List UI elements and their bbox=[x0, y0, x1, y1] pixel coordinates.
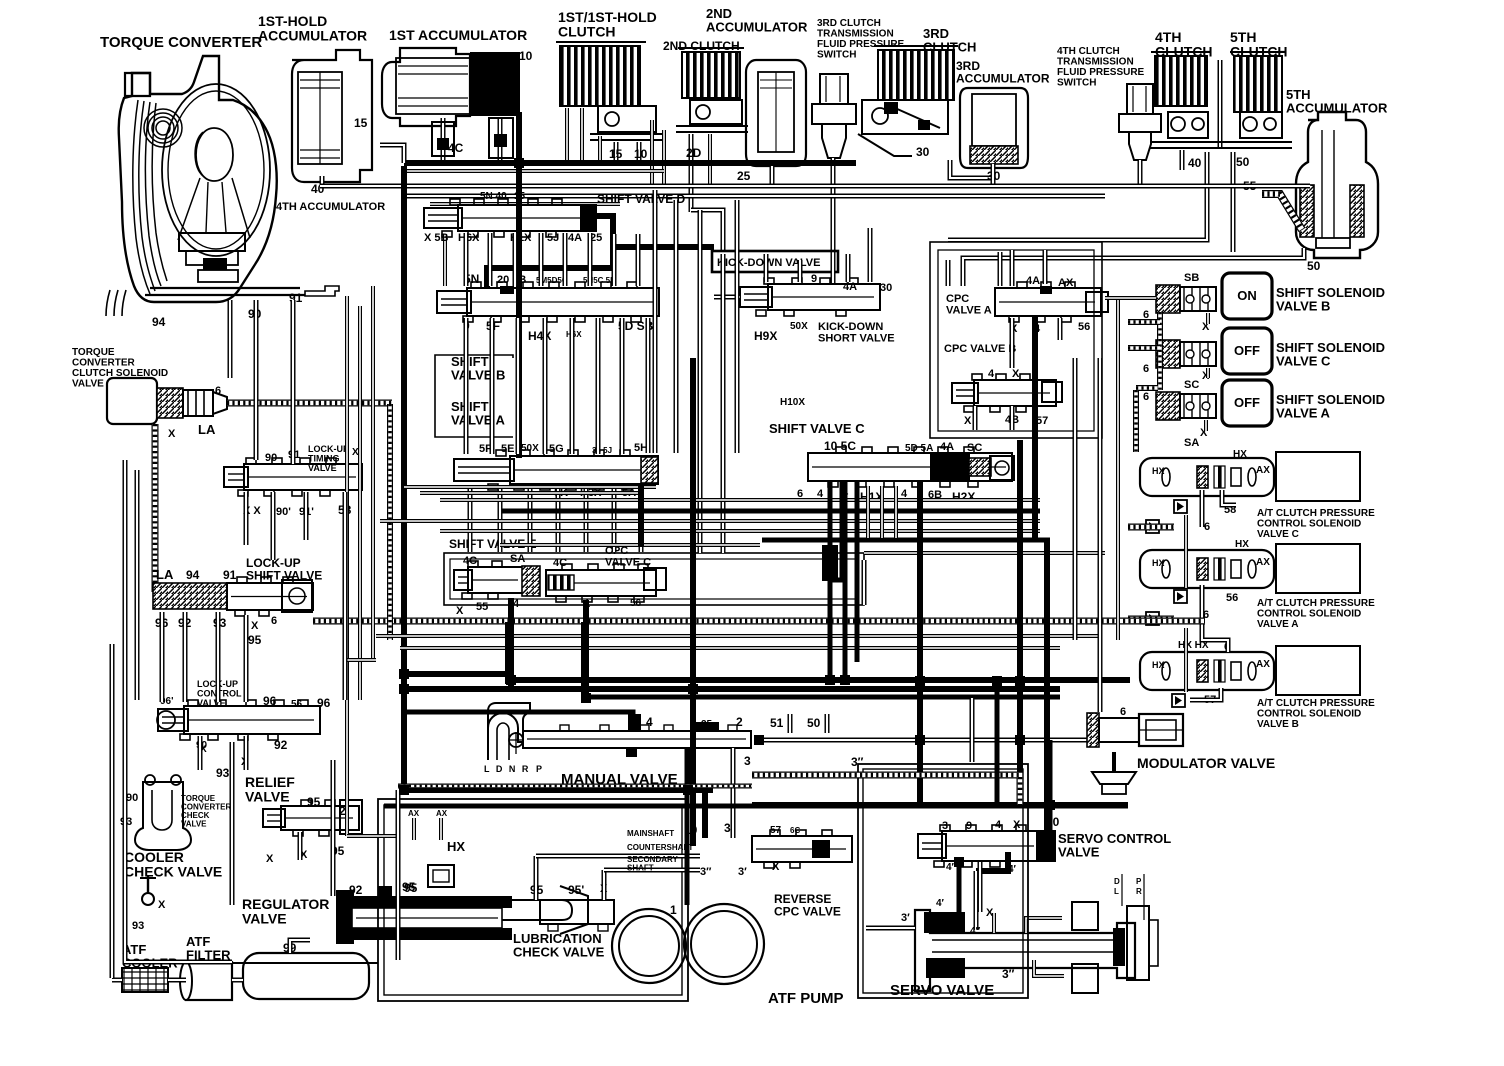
svg-text:OFF: OFF bbox=[1234, 395, 1260, 410]
kick-down left stem bbox=[714, 295, 740, 300]
svg-text:R: R bbox=[1136, 887, 1142, 896]
svg-text:CPC VALVE: CPC VALVE bbox=[774, 905, 841, 919]
svg-text:COOLER: COOLER bbox=[124, 849, 184, 865]
svg-text:TRANSMISSION: TRANSMISSION bbox=[817, 29, 894, 40]
svg-text:6: 6 bbox=[1143, 363, 1149, 375]
svg-text:2: 2 bbox=[339, 804, 346, 818]
svg-text:HX: HX bbox=[1152, 466, 1165, 476]
servo valve bbox=[915, 910, 1135, 991]
svg-text:L: L bbox=[1114, 887, 1119, 896]
wire 832 switch drop bbox=[831, 255, 836, 283]
A/T solenoid B connector box bbox=[1276, 646, 1360, 695]
wire 3rd clutch to bus bbox=[950, 160, 993, 183]
wire right lower verticals bbox=[995, 682, 1000, 806]
check valve A1 bbox=[1174, 590, 1187, 603]
svg-text:A/T CLUTCH PRESSURE: A/T CLUTCH PRESSURE bbox=[1257, 698, 1375, 709]
4th clutch pressure switch bbox=[1127, 84, 1153, 114]
svg-text:ACCUMULATOR: ACCUMULATOR bbox=[706, 20, 808, 35]
svg-text:AX: AX bbox=[1256, 557, 1270, 568]
svg-text:3″: 3″ bbox=[1002, 967, 1015, 981]
wire 3rd accumulator stem bbox=[991, 164, 996, 184]
svg-text:A/T CLUTCH PRESSURE: A/T CLUTCH PRESSURE bbox=[1257, 598, 1375, 609]
servo bottom block bbox=[1072, 964, 1098, 993]
wire at solenoid A ports bbox=[1202, 585, 1228, 652]
svg-text:X 5B: X 5B bbox=[424, 232, 449, 244]
svg-text:TORQUE CONVERTER: TORQUE CONVERTER bbox=[100, 34, 262, 51]
svg-text:6C: 6C bbox=[790, 826, 800, 835]
shift solenoid C box bbox=[1222, 328, 1272, 374]
wire servo 3' stub bbox=[866, 926, 915, 931]
wire 5th accumulator down bbox=[963, 248, 1304, 286]
servo control valve bbox=[942, 831, 1040, 861]
A/T solenoid C connector box bbox=[1276, 452, 1360, 501]
wire 3rd switch down bbox=[831, 158, 836, 282]
svg-text:95: 95 bbox=[402, 880, 416, 894]
4th/5th clutch pistons bbox=[1168, 112, 1208, 138]
lock-up shift valve body bbox=[227, 583, 313, 610]
wire at solenoid B ports bbox=[1190, 688, 1221, 700]
wire 50 bus bbox=[1231, 152, 1236, 252]
svg-text:20 5B: 20 5B bbox=[497, 274, 526, 286]
svg-text:3′: 3′ bbox=[738, 866, 747, 878]
svg-text:COUNTERSHAFT: COUNTERSHAFT bbox=[627, 843, 693, 852]
svg-text:X: X bbox=[1012, 368, 1020, 380]
svg-text:4: 4 bbox=[646, 715, 653, 729]
wire 4C riser bbox=[380, 145, 404, 163]
svg-text:SC: SC bbox=[1184, 379, 1199, 391]
svg-text:VALVE C: VALVE C bbox=[1276, 354, 1331, 369]
wire srv box left bbox=[862, 560, 867, 605]
svg-text:X: X bbox=[964, 415, 972, 427]
wire modulator stem bbox=[1112, 752, 1116, 772]
A/T solenoid A connector box bbox=[1276, 544, 1360, 593]
check valve B1 bbox=[1172, 694, 1185, 707]
svg-text:SHORT VALVE: SHORT VALVE bbox=[818, 333, 895, 345]
wire solenoid X down hatched bbox=[152, 424, 159, 592]
svg-text:6: 6 bbox=[1204, 521, 1210, 533]
wire thick mid horizontal bbox=[762, 538, 1050, 543]
svg-text:90': 90' bbox=[276, 506, 291, 518]
wire box rail 553 bbox=[864, 551, 1105, 555]
svg-text:95: 95 bbox=[307, 795, 321, 809]
wire servo control drop bbox=[957, 862, 962, 916]
svg-text:ATF PUMP: ATF PUMP bbox=[768, 990, 844, 1007]
wire regulator to relief bbox=[331, 760, 336, 896]
svg-text:3: 3 bbox=[942, 820, 948, 832]
wire tc converter down bbox=[228, 300, 233, 378]
wire 40 bus bbox=[948, 152, 1207, 240]
svg-text:VALVE: VALVE bbox=[72, 379, 104, 390]
svg-text:5TH: 5TH bbox=[1230, 29, 1256, 45]
svg-text:93: 93 bbox=[132, 920, 144, 932]
svg-text:56: 56 bbox=[1078, 321, 1090, 333]
wire 2D drop bbox=[691, 210, 723, 252]
shift valve E bbox=[468, 567, 524, 593]
hatched pipe into check C bbox=[1128, 524, 1174, 531]
svg-text:15: 15 bbox=[514, 191, 526, 202]
2nd accumulator bbox=[746, 60, 806, 166]
wire 1st accumulator ports bbox=[441, 118, 446, 160]
svg-text:X: X bbox=[772, 861, 780, 873]
svg-text:X: X bbox=[456, 605, 464, 617]
svg-text:CONTROL SOLENOID: CONTROL SOLENOID bbox=[1257, 609, 1361, 620]
svg-text:CHECK VALVE: CHECK VALVE bbox=[513, 945, 605, 960]
hatched pipe 55 bbox=[1262, 194, 1302, 230]
wire lube check stubs bbox=[534, 856, 539, 900]
wire 1st acc thick drop bbox=[516, 112, 522, 458]
wire 1st-hold accumulator to bus bbox=[320, 176, 325, 186]
svg-text:10 5C: 10 5C bbox=[824, 439, 856, 453]
svg-text:P: P bbox=[1136, 877, 1142, 886]
wire timing valve risers bbox=[244, 492, 249, 545]
wire cpc A internal drops bbox=[1010, 318, 1015, 368]
svg-text:LA: LA bbox=[156, 567, 174, 582]
atf cooler bbox=[122, 968, 168, 992]
svg-text:4TH CLUTCH: 4TH CLUTCH bbox=[1057, 46, 1120, 57]
wire shift C blob drop bbox=[822, 545, 838, 581]
svg-text:25: 25 bbox=[701, 719, 713, 730]
svg-text:VALVE: VALVE bbox=[181, 820, 207, 829]
wire interchange extra bbox=[404, 485, 656, 489]
svg-text:1ST-HOLD: 1ST-HOLD bbox=[258, 13, 327, 29]
wire right bundle down from clutches bbox=[612, 234, 617, 286]
shift solenoid A box bbox=[1222, 380, 1272, 426]
wire long horizontal 635 bbox=[376, 634, 1100, 638]
svg-text:LOCK-UP: LOCK-UP bbox=[308, 444, 349, 454]
hatched pipe LA bbox=[227, 400, 392, 407]
svg-text:KICK-DOWN VALVE: KICK-DOWN VALVE bbox=[717, 257, 820, 269]
svg-text:3: 3 bbox=[744, 754, 751, 768]
svg-text:VALVE B: VALVE B bbox=[1257, 719, 1299, 730]
wire main top bus bbox=[320, 184, 1310, 189]
wire manual valve right bbox=[764, 738, 1092, 743]
svg-text:30: 30 bbox=[916, 145, 930, 159]
reverse cpc valve bbox=[752, 836, 852, 862]
svg-text:40: 40 bbox=[1188, 156, 1202, 170]
modulator valve bbox=[1087, 713, 1099, 747]
svg-text:X: X bbox=[352, 447, 359, 458]
wire valve D thick connector bbox=[487, 216, 613, 288]
A/T clutch pressure control solenoid valve B body bbox=[1140, 652, 1274, 690]
svg-text:HX: HX bbox=[1152, 558, 1165, 568]
shift valve C hatch bbox=[969, 458, 991, 476]
svg-text:SWITCH: SWITCH bbox=[817, 50, 856, 61]
svg-text:3′: 3′ bbox=[901, 912, 910, 924]
wire thick accumulator feed bbox=[404, 160, 856, 166]
svg-text:X: X bbox=[986, 907, 994, 919]
shift valve C black blobs bbox=[930, 452, 970, 482]
svg-text:VALVE B: VALVE B bbox=[451, 368, 505, 383]
manual valve body bbox=[523, 731, 751, 748]
wire shift C extra drops bbox=[866, 486, 870, 538]
svg-text:CHECK VALVE: CHECK VALVE bbox=[124, 864, 222, 880]
wire kick-down risers bbox=[764, 254, 769, 282]
wire cpc box internals bbox=[946, 260, 951, 286]
cpc valve A bbox=[995, 288, 1101, 316]
relief valve bbox=[281, 806, 359, 830]
wire relief drop bbox=[298, 832, 303, 860]
wire 4th clutch down bbox=[1180, 150, 1185, 170]
svg-text:4TH ACCUMULATOR: 4TH ACCUMULATOR bbox=[276, 201, 385, 213]
svg-text:4A: 4A bbox=[1026, 275, 1040, 287]
svg-text:1ST ACCUMULATOR: 1ST ACCUMULATOR bbox=[389, 27, 527, 43]
svg-text:SHIFT VALVE D: SHIFT VALVE D bbox=[597, 192, 686, 206]
wire manual 3 drop bbox=[731, 748, 736, 838]
lock-up timing valve bbox=[244, 464, 362, 490]
wire servo drops bbox=[978, 862, 983, 912]
svg-text:VALVE: VALVE bbox=[242, 911, 287, 927]
1st clutch piston bbox=[598, 106, 656, 132]
svg-text:ON: ON bbox=[1237, 288, 1257, 303]
svg-text:6: 6 bbox=[215, 385, 221, 397]
svg-text:90: 90 bbox=[126, 792, 138, 804]
wire middle verticals cluster C bbox=[468, 486, 473, 552]
cpc valve C bbox=[546, 570, 656, 596]
wire h 262 bbox=[961, 262, 966, 286]
svg-text:35 5J: 35 5J bbox=[592, 446, 612, 455]
1st accumulator black piston bbox=[470, 52, 520, 116]
svg-text:CONVERTER: CONVERTER bbox=[72, 358, 136, 369]
2nd clutch piston bbox=[690, 100, 742, 124]
svg-text:96: 96 bbox=[317, 696, 331, 710]
svg-text:4A: 4A bbox=[940, 441, 954, 453]
svg-text:4″: 4″ bbox=[970, 926, 981, 937]
svg-text:AX: AX bbox=[436, 809, 448, 818]
svg-text:94: 94 bbox=[152, 315, 166, 329]
svg-text:6: 6 bbox=[1120, 706, 1126, 718]
svg-text:9: 9 bbox=[811, 273, 817, 285]
svg-text:X: X bbox=[168, 428, 176, 440]
wire 95 rail lube bbox=[396, 790, 401, 960]
modulator funnel bbox=[1092, 772, 1136, 784]
svg-text:A/T CLUTCH PRESSURE: A/T CLUTCH PRESSURE bbox=[1257, 508, 1375, 519]
svg-text:5N 40: 5N 40 bbox=[480, 191, 507, 202]
svg-text:4: 4 bbox=[513, 598, 520, 610]
hatched pipe into check A bbox=[1128, 616, 1174, 623]
4th clutch pack bbox=[1155, 56, 1207, 106]
wire 51 50 stubs bbox=[788, 714, 793, 733]
svg-text:5G: 5G bbox=[549, 443, 564, 455]
wire AX stubs bbox=[412, 818, 416, 840]
wire 91 drop bbox=[291, 300, 296, 464]
svg-text:VALVE: VALVE bbox=[245, 789, 290, 805]
wire check valve links bbox=[1184, 515, 1188, 588]
svg-text:5J: 5J bbox=[547, 232, 559, 244]
svg-text:HX: HX bbox=[1235, 539, 1249, 550]
regulator valve bbox=[336, 890, 354, 944]
box shift valve B/A bbox=[435, 355, 513, 437]
svg-text:15: 15 bbox=[609, 147, 623, 161]
wire cpc box to coils bbox=[1105, 296, 1156, 300]
wire cpc A risers bbox=[1010, 250, 1015, 286]
servo valve black blobs bbox=[924, 912, 965, 933]
box cpc valves bbox=[930, 242, 1102, 438]
svg-text:4A: 4A bbox=[843, 281, 857, 293]
svg-text:SWITCH: SWITCH bbox=[1057, 78, 1096, 89]
shift valve D bbox=[458, 205, 596, 231]
svg-text:FLUID PRESSURE: FLUID PRESSURE bbox=[1057, 67, 1145, 78]
wire valve D port drop bbox=[443, 234, 447, 286]
svg-text:HX: HX bbox=[447, 839, 465, 854]
svg-text:94: 94 bbox=[186, 568, 200, 582]
svg-text:4C: 4C bbox=[463, 555, 477, 567]
wire cooler left bbox=[112, 978, 122, 983]
svg-text:SERVO VALVE: SERVO VALVE bbox=[890, 982, 994, 999]
wire cpc B stems bbox=[973, 406, 978, 430]
wire left box vertical 2 bbox=[125, 460, 232, 962]
svg-text:96: 96 bbox=[263, 694, 277, 708]
svg-text:4′: 4′ bbox=[936, 898, 945, 909]
svg-text:TRANSMISSION: TRANSMISSION bbox=[1057, 57, 1134, 68]
1st accumulator port valves bbox=[432, 122, 454, 156]
lock-up control valve bbox=[184, 706, 320, 734]
box shift valve E region bbox=[444, 553, 864, 605]
wire 1st clutch ports bbox=[614, 142, 619, 160]
svg-text:5E: 5E bbox=[501, 443, 514, 455]
svg-text:VALVE C: VALVE C bbox=[1257, 529, 1299, 540]
svg-text:CONTROL SOLENOID: CONTROL SOLENOID bbox=[1257, 519, 1361, 530]
svg-text:H4X: H4X bbox=[528, 329, 551, 343]
svg-text:HX: HX bbox=[1152, 660, 1165, 670]
hatched pipe lockup right bbox=[313, 618, 1205, 625]
svg-text:56: 56 bbox=[630, 598, 642, 609]
svg-text:1: 1 bbox=[670, 903, 677, 917]
wire solenoid X stubs bbox=[1206, 313, 1210, 324]
svg-text:CLUTCH: CLUTCH bbox=[558, 24, 616, 40]
svg-text:4: 4 bbox=[988, 368, 995, 380]
svg-text:AX: AX bbox=[1058, 277, 1074, 289]
servo 4-prime thick elbow bbox=[976, 852, 1008, 871]
svg-text:SA: SA bbox=[1184, 437, 1199, 449]
svg-text:CPC: CPC bbox=[946, 293, 969, 305]
svg-text:10: 10 bbox=[634, 147, 648, 161]
svg-text:56: 56 bbox=[291, 699, 303, 710]
svg-text:D: D bbox=[1114, 877, 1120, 886]
box kick-down valve label bbox=[712, 251, 838, 272]
svg-text:X: X bbox=[251, 620, 259, 632]
shift solenoid C coil bbox=[1156, 340, 1180, 368]
svg-text:6: 6 bbox=[271, 615, 277, 627]
wire thick horizontal 805 bbox=[752, 802, 1128, 808]
3rd clutch pressure switch bbox=[820, 74, 848, 104]
svg-text:RELIEF: RELIEF bbox=[245, 774, 295, 790]
cooler check valve bbox=[147, 876, 149, 894]
3rd clutch pack bbox=[878, 50, 954, 100]
3rd clutch piston bbox=[862, 100, 948, 134]
wire top bus fourth bbox=[430, 202, 620, 206]
svg-text:VALVE C: VALVE C bbox=[605, 557, 651, 569]
wire mid horizontal 545 bbox=[500, 543, 760, 547]
svg-text:ACCUMULATOR: ACCUMULATOR bbox=[956, 72, 1050, 86]
wire manual 1 drop bbox=[686, 748, 691, 788]
svg-text:FLUID PRESSURE: FLUID PRESSURE bbox=[817, 39, 905, 50]
box lubrication region bbox=[378, 799, 688, 1001]
svg-text:X: X bbox=[266, 853, 274, 865]
oil pan bbox=[243, 953, 369, 999]
svg-text:1ST/1ST-HOLD: 1ST/1ST-HOLD bbox=[558, 9, 657, 25]
lubrication check valve bbox=[540, 900, 614, 924]
wire top bus third bbox=[404, 169, 664, 173]
svg-text:2D: 2D bbox=[686, 146, 702, 160]
shift valve C bbox=[808, 453, 1012, 481]
wire thick bottoms bbox=[406, 671, 512, 677]
wire lockup box bbox=[135, 470, 140, 700]
svg-text:VALVE B: VALVE B bbox=[1276, 299, 1330, 314]
svg-text:3: 3 bbox=[724, 821, 731, 835]
wire top bus second bbox=[404, 194, 1105, 199]
svg-text:CPC VALVE B: CPC VALVE B bbox=[944, 343, 1016, 355]
svg-text:MAINSHAFT: MAINSHAFT bbox=[627, 829, 674, 838]
servo right end bbox=[1113, 928, 1125, 966]
svg-text:95: 95 bbox=[248, 633, 262, 647]
wire lockup shift risers bbox=[160, 612, 165, 702]
shift valve D black end bbox=[580, 204, 597, 232]
torque converter check valve bbox=[135, 782, 191, 850]
svg-text:50X: 50X bbox=[790, 321, 808, 332]
wire left box vertical 1 bbox=[110, 644, 115, 978]
lock-up shift valve hatched block bbox=[153, 583, 227, 609]
svg-text:H9X: H9X bbox=[754, 329, 777, 343]
svg-text:ACCUMULATOR: ACCUMULATOR bbox=[258, 28, 367, 44]
svg-text:25: 25 bbox=[737, 169, 751, 183]
wire thick verticals right cluster bbox=[830, 482, 842, 680]
svg-text:SHIFT VALVE C: SHIFT VALVE C bbox=[769, 421, 865, 436]
svg-text:51: 51 bbox=[770, 716, 784, 730]
5th accumulator bbox=[1296, 112, 1378, 258]
atf filter bbox=[186, 962, 232, 1000]
wire at solenoid C ports bbox=[1200, 490, 1205, 527]
svg-text:VALVE A: VALVE A bbox=[1257, 619, 1298, 630]
wire 90 drop bbox=[254, 300, 259, 460]
svg-text:ACCUMULATOR: ACCUMULATOR bbox=[1286, 101, 1388, 116]
svg-text:AX: AX bbox=[1256, 659, 1270, 670]
wire 2nd accumulator stem bbox=[770, 166, 775, 186]
clutch center shaft bbox=[1218, 60, 1223, 148]
svg-text:VALVE A: VALVE A bbox=[946, 305, 992, 317]
wire 2nd clutch port bbox=[689, 134, 694, 212]
atf pump gear 2 bbox=[684, 904, 764, 984]
svg-text:3″: 3″ bbox=[700, 866, 712, 878]
wire manual thick L feed bbox=[406, 712, 633, 730]
svg-text:L D N R: L D N R bbox=[484, 764, 530, 774]
wire cooler-filter-pan bbox=[168, 978, 186, 983]
svg-text:P: P bbox=[536, 764, 542, 774]
svg-text:4: 4 bbox=[995, 819, 1002, 831]
shift solenoid A coil bbox=[1156, 392, 1180, 420]
svg-text:10: 10 bbox=[519, 49, 533, 63]
svg-text:91: 91 bbox=[223, 568, 237, 582]
1st/1st-hold clutch pack bbox=[560, 46, 640, 106]
A/T clutch pressure control solenoid valve A body bbox=[1140, 550, 1274, 588]
wire clutch piston ports bbox=[565, 108, 569, 162]
svg-text:MODULATOR VALVE: MODULATOR VALVE bbox=[1137, 755, 1275, 771]
kick-down valve bbox=[768, 284, 880, 310]
svg-text:50X: 50X bbox=[521, 443, 539, 454]
svg-text:5D 5A: 5D 5A bbox=[905, 443, 933, 454]
svg-text:57: 57 bbox=[770, 825, 782, 836]
svg-text:50: 50 bbox=[1307, 259, 1321, 273]
svg-text:VALVE: VALVE bbox=[1058, 845, 1100, 860]
wire shift C drops bbox=[828, 482, 833, 560]
wire left nested box lines bbox=[345, 296, 349, 836]
shift valve A row3 bbox=[510, 456, 658, 484]
svg-text:LA: LA bbox=[198, 422, 216, 437]
check valve C1 bbox=[1174, 500, 1187, 513]
wire lockup control down bbox=[198, 736, 203, 770]
svg-text:93: 93 bbox=[216, 766, 230, 780]
cpc valve B bbox=[974, 380, 1056, 406]
servo top block bbox=[1072, 902, 1098, 930]
